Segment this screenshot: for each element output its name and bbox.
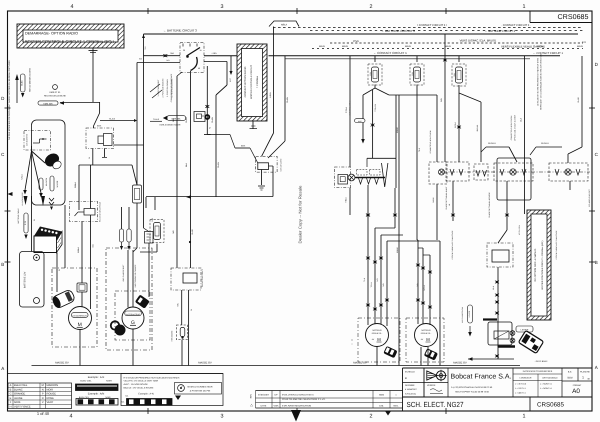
svg-text:B: B xyxy=(405,377,407,380)
svg-text:+15A: +15A xyxy=(211,52,217,55)
svg-text:N/BLA: N/BLA xyxy=(77,246,80,252)
svg-text:ECLAIREUR AR OPT: ECLAIREUR AR OPT xyxy=(588,188,591,206)
svg-text:CLA/R: CLA/R xyxy=(577,97,580,103)
svg-text:KMS 02 DEMAR ACCESS: KMS 02 DEMAR ACCESS xyxy=(29,68,32,92)
svg-text:MAAV: MAAV xyxy=(537,45,544,48)
svg-text:B: B xyxy=(1,262,4,267)
svg-text:MASSE OV: MASSE OV xyxy=(453,362,467,365)
svg-text:& POSITION DU PIN: & POSITION DU PIN xyxy=(190,390,211,393)
svg-text:BALELE : 1% VEUILLE ROUGE: BALELE : 1% VEUILLE ROUGE xyxy=(124,387,155,390)
svg-text:ROSE: ROSE xyxy=(47,397,55,400)
svg-text:KMS BATTERIE: KMS BATTERIE xyxy=(26,133,29,146)
svg-text:ORTHOGONALE: ORTHOGONALE xyxy=(542,376,558,379)
svg-text:RELAIS PRECHAUFF: RELAIS PRECHAUFF xyxy=(201,268,204,287)
svg-text:← CONTACT CIRCUIT 1: ← CONTACT CIRCUIT 1 xyxy=(373,51,407,55)
svg-text:KLAXON MASSE: KLAXON MASSE xyxy=(21,192,24,206)
svg-text:C: C xyxy=(10,393,12,396)
svg-text:TH.4.0: TH.4.0 xyxy=(153,118,160,121)
svg-text:KMS CHARGE BATT: KMS CHARGE BATT xyxy=(122,264,125,282)
svg-text:Exemple : A-N: Exemple : A-N xyxy=(138,393,154,396)
svg-text:BLANC: BLANC xyxy=(14,388,23,391)
svg-text:A: A xyxy=(595,365,598,370)
svg-text:BATTERIE 12V: BATTERIE 12V xyxy=(24,271,27,288)
svg-text:CLA: CLA xyxy=(520,117,523,122)
svg-text:ALTERNATEUR: ALTERNATEUR xyxy=(126,313,141,316)
svg-text:VISA: VISA xyxy=(274,405,280,408)
svg-text:AVEC : 1% NOIR ROUGE: AVEC : 1% NOIR ROUGE xyxy=(124,383,149,386)
svg-text:L < 30 T±0.5: L < 30 T±0.5 xyxy=(515,383,527,386)
svg-text:P/VA: P/VA xyxy=(353,40,359,43)
svg-text:A: A xyxy=(10,384,12,387)
svg-text:BLEU CIEL: BLEU CIEL xyxy=(14,384,28,387)
svg-text:H/B.A: H/B.A xyxy=(269,92,272,98)
svg-text:1. POSITION ARRET: 1. POSITION ARRET xyxy=(157,79,160,97)
svg-text:COMMUTATION DE DEMARRAGE: COMMUTATION DE DEMARRAGE xyxy=(170,73,173,102)
svg-text:ACC: ACC xyxy=(229,77,232,82)
svg-text:BLA/LA: BLA/LA xyxy=(488,142,496,145)
svg-text:DEMARREUR: DEMARREUR xyxy=(73,315,88,318)
svg-text:← BATTERIE CIRCUIT 3: ← BATTERIE CIRCUIT 3 xyxy=(381,29,415,33)
svg-text:1: 1 xyxy=(523,4,526,10)
svg-text:1: 1 xyxy=(582,376,584,380)
svg-text:R/BLA: R/BLA xyxy=(74,181,77,187)
svg-text:NE PAS MODIFIER CE DOCUMENT SA: NE PAS MODIFIER CE DOCUMENT SANS L’ACCOR… xyxy=(8,60,11,140)
svg-text:T/CLA: T/CLA xyxy=(345,107,348,113)
svg-text:30: 30 xyxy=(183,49,185,52)
svg-text:2. POSITION MARCHE: 2. POSITION MARCHE xyxy=(162,78,165,98)
svg-text:△: △ xyxy=(250,403,253,407)
svg-text:−: − xyxy=(351,342,353,346)
svg-text:PHARE DE TRAVAIL AVANT: PHARE DE TRAVAIL AVANT xyxy=(445,186,448,210)
svg-text:SCH. ELECT. NG27: SCH. ELECT. NG27 xyxy=(407,400,464,409)
svg-text:VERIFIE: VERIFIE xyxy=(427,384,436,387)
svg-text:T/BLA: T/BLA xyxy=(345,197,348,203)
svg-text:GRIS: GRIS xyxy=(14,401,21,404)
svg-text:D.M.: D.M. xyxy=(379,405,384,408)
svg-text:CLA/N: CLA/N xyxy=(211,116,214,122)
svg-text:REPRODUIT OU COMMUNIQUE SANS N: REPRODUIT OU COMMUNIQUE SANS NOTRE AUTOR… xyxy=(540,54,543,110)
svg-text:LEVIER: LEVIER xyxy=(468,310,471,317)
svg-text:BLA: BLA xyxy=(185,162,188,166)
svg-text:CE PLAN EST NOTRE PROPRIETE ET: CE PLAN EST NOTRE PROPRIETE ET NE PEUT E… xyxy=(537,57,540,106)
svg-text:1: 1 xyxy=(523,414,526,420)
svg-text:KMS TEMOIN DE CHARGE: KMS TEMOIN DE CHARGE xyxy=(134,264,137,287)
svg-text:5602: 5602 xyxy=(567,377,573,380)
svg-text:E: E xyxy=(10,397,12,400)
svg-text:RELAIS DE DEMARRAGE: RELAIS DE DEMARRAGE xyxy=(99,201,102,222)
svg-text:MASSE OV: MASSE OV xyxy=(55,362,69,365)
svg-text:NOM DU CONNECTEUR: NOM DU CONNECTEUR xyxy=(188,385,213,388)
svg-text:KMS 30A: KMS 30A xyxy=(43,102,53,105)
svg-text:VERT FONCE: VERT FONCE xyxy=(14,405,31,408)
svg-text:P: P xyxy=(42,393,44,396)
svg-text:H: H xyxy=(10,405,12,408)
svg-text:DATES NON TOLERANCEES: DATES NON TOLERANCEES xyxy=(523,370,553,373)
svg-text:..DESC.BRAS: ..DESC.BRAS xyxy=(535,360,548,363)
svg-text:1 of 40: 1 of 40 xyxy=(37,411,50,416)
svg-text:OPTION CABINE AVEC CHAUFFAGE: OPTION CABINE AVEC CHAUFFAGE xyxy=(555,230,558,260)
svg-text:KLAXON: KLAXON xyxy=(45,178,48,186)
svg-text:KMS 07 E1: KMS 07 E1 xyxy=(49,91,61,94)
svg-text:BLA/LA: BLA/LA xyxy=(541,142,549,145)
svg-text:MARRON: MARRON xyxy=(47,384,59,387)
svg-text:Bobcat France S.A.: Bobcat France S.A. xyxy=(451,372,512,380)
svg-text:ETAT AVANT MODIFICATION: ETAT AVANT MODIFICATION xyxy=(282,405,311,408)
svg-text:REV.: REV. xyxy=(250,393,253,398)
svg-text:15: 15 xyxy=(199,49,201,52)
svg-text:L < 120 T±1: L < 120 T±1 xyxy=(515,387,526,390)
svg-text:CONNECTEUR NON FOURNI: CONNECTEUR NON FOURNI xyxy=(510,115,513,140)
svg-text:KMS CH 10 TEMOIN: KMS CH 10 TEMOIN xyxy=(461,306,464,323)
svg-text:NOIR: NOIR xyxy=(106,380,112,383)
svg-text:MAAV: MAAV xyxy=(432,197,435,203)
svg-text:KMS MASSE: KMS MASSE xyxy=(171,330,174,341)
svg-text:R: R xyxy=(42,397,44,400)
svg-text:50: 50 xyxy=(198,67,200,70)
svg-text:Exemple : A/N: Exemple : A/N xyxy=(88,393,105,396)
svg-text:CONNECTEUR NON FOURNI: CONNECTEUR NON FOURNI xyxy=(429,130,432,154)
svg-text:← BATTERIE CIRCUIT 3: ← BATTERIE CIRCUIT 3 xyxy=(163,29,197,33)
svg-text:DP: DP xyxy=(274,394,278,397)
svg-text:A: A xyxy=(1,366,4,371)
svg-text:MAAV: MAAV xyxy=(577,45,584,48)
svg-text:3. POSITION DEMAR.: 3. POSITION DEMAR. xyxy=(166,78,169,97)
svg-text:CLA.N: CLA.N xyxy=(217,161,220,167)
svg-text:CRS0685: CRS0685 xyxy=(558,14,589,21)
svg-text:ROUGE: ROUGE xyxy=(47,393,57,396)
svg-text:BLA/LA: BLA/LA xyxy=(476,124,479,131)
svg-text:MOTEUR: MOTEUR xyxy=(421,329,431,332)
svg-text:N/CLA: N/CLA xyxy=(423,285,426,291)
svg-text:M: M xyxy=(377,337,381,342)
svg-text:OPTION CAB. CHAUF. A VENIR: OPTION CAB. CHAUF. A VENIR xyxy=(514,114,517,141)
svg-text:N: N xyxy=(42,388,44,391)
svg-text:R 25: R 25 xyxy=(24,221,27,225)
svg-text:MAAV: MAAV xyxy=(396,247,399,253)
svg-text:A0: A0 xyxy=(572,388,580,395)
svg-text:L = NON T±1: L = NON T±1 xyxy=(540,387,553,390)
svg-text:H/B.A: H/B.A xyxy=(281,24,288,27)
svg-text:RELAIS DECLENCHE: RELAIS DECLENCHE xyxy=(44,95,66,98)
svg-text:MASSE: MASSE xyxy=(56,180,59,187)
svg-text:KMS: KMS xyxy=(241,145,246,148)
svg-text:MOTEUR: MOTEUR xyxy=(372,329,382,332)
svg-text:DEMARRAGE- OPTION RADIO: DEMARRAGE- OPTION RADIO xyxy=(25,32,78,36)
svg-text:ESSUIE GL.: ESSUIE GL. xyxy=(421,332,432,335)
svg-text:NOIR: NOIR xyxy=(47,388,54,391)
svg-text:PHARE DE TRAVAIL ARRIERE: PHARE DE TRAVAIL ARRIERE xyxy=(488,192,491,218)
svg-text:ECHELLE: ECHELLE xyxy=(405,371,416,374)
svg-text:FORMAT: FORMAT xyxy=(573,384,582,387)
svg-text:MAJ.: MAJ. xyxy=(394,405,399,408)
svg-text:CLA/N: CLA/N xyxy=(286,96,289,102)
svg-text:KMS: KMS xyxy=(97,125,102,128)
svg-text:← BATTERIE CIRCUIT 3: ← BATTERIE CIRCUIT 3 xyxy=(485,30,516,33)
svg-text:Telec/TVCPROF Fax:02 40 88 73: Telec/TVCPROF Fax:02 40 88 73 60 xyxy=(455,391,490,394)
svg-text:4: 4 xyxy=(70,414,73,420)
svg-text:B-/04/2007: B-/04/2007 xyxy=(258,394,269,397)
svg-text:M: M xyxy=(426,337,430,342)
svg-text:BOITIER CONTROLE CIRCUIT: BOITIER CONTROLE CIRCUIT xyxy=(250,65,253,99)
svg-text:V: V xyxy=(42,401,44,404)
svg-text:KMS ES GLACE AV: KMS ES GLACE AV xyxy=(349,100,352,116)
svg-text:MAAV: MAAV xyxy=(396,127,399,133)
svg-text:T/CLA: T/CLA xyxy=(370,282,373,288)
svg-text:KMS A DIODE INCOR: KMS A DIODE INCOR xyxy=(160,124,181,127)
svg-text:ORANGE: ORANGE xyxy=(14,393,26,396)
svg-text:VERS DISPAC./CLA. BRUTE: VERS DISPAC./CLA. BRUTE xyxy=(460,39,497,43)
svg-text:T/LA.N: T/LA.N xyxy=(109,117,116,120)
svg-text:KMS DE MASSE: KMS DE MASSE xyxy=(280,158,283,172)
svg-text:N/BLA: N/BLA xyxy=(21,174,24,180)
svg-text:F=(+33) PONTCHATEAU Tel:02 40: F=(+33) PONTCHATEAU Tel:02 40 88 73 50 xyxy=(451,386,493,389)
svg-text:B: B xyxy=(10,388,12,391)
svg-text:5600: 5600 xyxy=(379,394,385,397)
svg-text:S.Fourreau: S.Fourreau xyxy=(405,393,417,396)
svg-text:ESSUIE GL.: ESSUIE GL. xyxy=(372,332,383,335)
svg-text:Dealer Copy -- Not for Resale: Dealer Copy -- Not for Resale xyxy=(297,185,302,244)
svg-text:2: 2 xyxy=(370,4,373,10)
svg-text:3: 3 xyxy=(221,414,224,420)
svg-text:EVOLUTION DU CIRCUIT NO 6: EVOLUTION DU CIRCUIT NO 6 xyxy=(282,394,314,397)
svg-text:L = NON T±1: L = NON T±1 xyxy=(540,383,553,386)
svg-text:← CONTACT CIRCUIT 1: ← CONTACT CIRCUIT 1 xyxy=(533,52,564,55)
svg-text:KP CH 10W: KP CH 10W xyxy=(518,225,521,235)
svg-text:DATE: DATE xyxy=(261,405,267,408)
svg-text:2: 2 xyxy=(370,414,373,420)
svg-text:MASSE OV: MASSE OV xyxy=(353,362,367,365)
svg-text:R/N: R/N xyxy=(440,98,443,102)
svg-text:KMS 30A: KMS 30A xyxy=(172,118,181,121)
svg-text:VELA P.N : 1% VEUILLE VERT NOI: VELA P.N : 1% VEUILLE VERT NOIR xyxy=(124,380,159,383)
svg-text:BLEU: BLEU xyxy=(21,80,24,86)
svg-text:B: B xyxy=(595,260,598,265)
svg-text:L > 400 T±1: L > 400 T±1 xyxy=(515,391,526,394)
svg-text:MAAV: MAAV xyxy=(319,45,326,48)
svg-text:H-N COULEUR PRINCIPALE SUR QUE: H-N COULEUR PRINCIPALE SUR QUELQUES MACH… xyxy=(124,376,180,379)
svg-text:OPTION CABINE AVEC CHAUFFAGE: OPTION CABINE AVEC CHAUFFAGE xyxy=(451,230,454,260)
svg-text:. CONTACT CIRCUIT 3 .: . CONTACT CIRCUIT 3 . xyxy=(501,24,531,27)
svg-text:= CRS06xx: = CRS06xx xyxy=(256,75,259,88)
svg-text:T/N: T/N xyxy=(177,303,180,307)
svg-text:VERT: VERT xyxy=(47,401,54,404)
svg-text:BATTERIE CABLE: BATTERIE CABLE xyxy=(17,208,20,224)
svg-text:MASSE OV: MASSE OV xyxy=(198,362,212,365)
svg-text:BLEU CIEL: BLEU CIEL xyxy=(80,380,92,383)
svg-text:MAAV: MAAV xyxy=(405,45,412,48)
svg-text:47A: 47A xyxy=(582,41,587,44)
svg-text:DESSINE: DESSINE xyxy=(405,384,415,387)
svg-text:4: 4 xyxy=(71,4,74,10)
svg-text:B.E.: B.E. xyxy=(568,371,573,374)
svg-text:/ CONTACT CIRCUIT 3 \: / CONTACT CIRCUIT 3 \ xyxy=(417,24,447,27)
svg-text:R/CLA: R/CLA xyxy=(454,121,457,127)
svg-text:DC OPTION PAR LE MANUF.: DC OPTION PAR LE MANUF. xyxy=(534,248,537,282)
svg-text:b 16/04/2007: b 16/04/2007 xyxy=(405,388,418,391)
svg-text:LONGUEUR: LONGUEUR xyxy=(520,376,532,379)
svg-text:PLANCHE: PLANCHE xyxy=(580,371,590,374)
svg-text:MAAV: MAAV xyxy=(445,45,452,48)
svg-text:M: M xyxy=(42,384,44,387)
svg-text:3: 3 xyxy=(221,4,224,10)
svg-text:BOITIER CONTROLE CIRCUIT = CRS: BOITIER CONTROLE CIRCUIT = CRS06xx (NO.) xyxy=(541,240,544,289)
svg-text:MAAV: MAAV xyxy=(342,45,349,48)
svg-text:CONTACT-OPTION RADIO: CONTACT-OPTION RADIO xyxy=(244,67,247,98)
svg-text:CLA/R: CLA/R xyxy=(191,229,194,235)
svg-text:POUR TELEMETRE OBLIGATOIRE P 1: POUR TELEMETRE OBLIGATOIRE P 1 of 1 xyxy=(282,398,326,401)
svg-text:Exemple : A-N: Exemple : A-N xyxy=(88,376,105,379)
svg-text:BOITIER CONTROLE CIRCUIT = CRS: BOITIER CONTROLE CIRCUIT = CRS06xx (NO.) xyxy=(25,40,114,44)
svg-text:T/CLA.N: T/CLA.N xyxy=(374,104,377,112)
svg-text:JAUNE: JAUNE xyxy=(14,397,23,400)
svg-text:CRS0685: CRS0685 xyxy=(537,402,565,409)
